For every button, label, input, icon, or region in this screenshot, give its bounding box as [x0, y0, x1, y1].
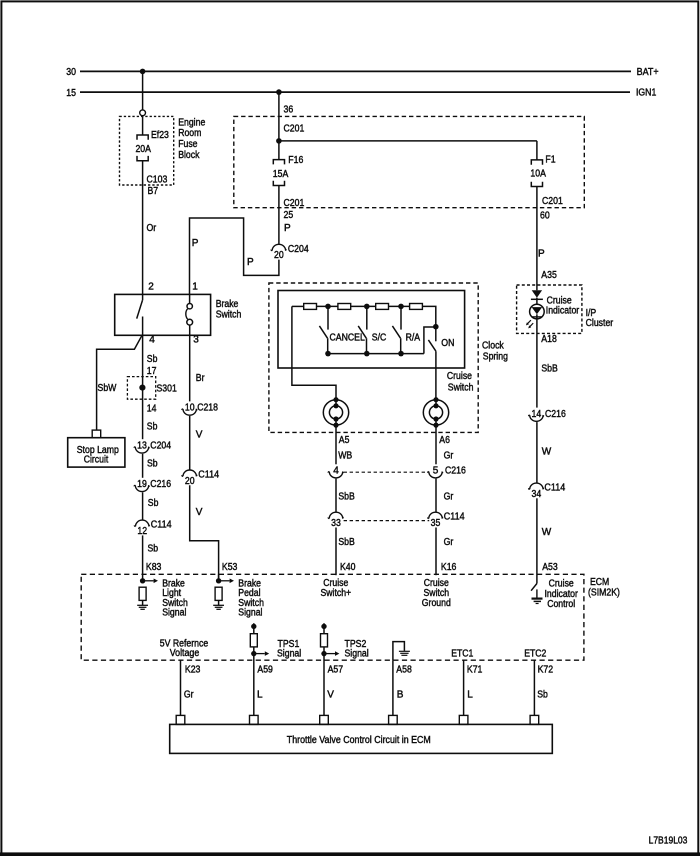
svg-text:C114: C114	[198, 470, 219, 481]
svg-text:SbW: SbW	[98, 383, 117, 394]
svg-text:C204: C204	[288, 244, 309, 255]
svg-text:Signal: Signal	[345, 649, 369, 660]
svg-text:L7B19L03: L7B19L03	[649, 835, 688, 846]
svg-text:Fuse: Fuse	[178, 139, 198, 150]
svg-text:20: 20	[185, 476, 195, 487]
svg-text:20: 20	[274, 250, 284, 261]
svg-text:P: P	[247, 257, 254, 268]
svg-text:Brake: Brake	[216, 299, 239, 310]
svg-text:A59: A59	[257, 665, 273, 676]
svg-text:17: 17	[147, 366, 157, 377]
svg-text:Gr: Gr	[444, 450, 454, 461]
svg-text:A58: A58	[396, 665, 412, 676]
svg-text:Sb: Sb	[537, 690, 548, 701]
svg-text:4: 4	[149, 334, 155, 345]
svg-text:Switch: Switch	[216, 310, 242, 321]
svg-text:K83: K83	[146, 562, 162, 573]
svg-text:P: P	[192, 238, 199, 249]
svg-text:V: V	[196, 507, 203, 518]
svg-text:ECM: ECM	[590, 577, 609, 588]
svg-text:C216: C216	[545, 409, 566, 420]
svg-text:15: 15	[66, 88, 76, 99]
svg-text:14: 14	[147, 403, 157, 414]
svg-text:Indicator: Indicator	[546, 305, 580, 316]
svg-text:F1: F1	[545, 154, 556, 165]
svg-text:CANCEL: CANCEL	[330, 332, 366, 343]
svg-text:Signal: Signal	[277, 649, 301, 660]
svg-text:V: V	[327, 690, 334, 701]
svg-text:K72: K72	[538, 665, 554, 676]
svg-text:A18: A18	[541, 334, 557, 345]
svg-text:SbB: SbB	[338, 537, 355, 548]
svg-text:Spring: Spring	[483, 352, 508, 363]
svg-text:1: 1	[192, 282, 198, 293]
svg-text:19: 19	[137, 479, 147, 490]
svg-text:K23: K23	[185, 665, 201, 676]
svg-text:Ground: Ground	[422, 598, 451, 609]
svg-text:Sb: Sb	[148, 544, 159, 555]
svg-text:C114: C114	[444, 512, 465, 523]
svg-text:10: 10	[185, 403, 195, 414]
svg-text:Sb: Sb	[148, 498, 159, 509]
svg-text:IGN1: IGN1	[636, 88, 657, 99]
svg-text:20A: 20A	[135, 144, 151, 155]
svg-text:Sb: Sb	[147, 459, 158, 470]
svg-text:C114: C114	[151, 520, 172, 531]
svg-text:ON: ON	[441, 338, 454, 349]
svg-text:Sb: Sb	[147, 421, 158, 432]
svg-text:C216: C216	[445, 465, 466, 476]
svg-text:A57: A57	[328, 665, 344, 676]
svg-text:SbB: SbB	[338, 492, 355, 503]
svg-text:BAT+: BAT+	[637, 67, 659, 78]
svg-text:Block: Block	[178, 150, 200, 161]
svg-text:Switch+: Switch+	[320, 588, 351, 599]
svg-text:3: 3	[193, 334, 199, 345]
svg-text:V: V	[196, 430, 203, 441]
svg-text:15A: 15A	[273, 169, 289, 180]
svg-text:W: W	[542, 527, 552, 538]
svg-text:Cruise: Cruise	[447, 371, 472, 382]
svg-text:Or: Or	[147, 223, 157, 234]
svg-text:5: 5	[433, 465, 439, 476]
svg-text:Room: Room	[178, 128, 201, 139]
svg-text:Engine: Engine	[178, 117, 205, 128]
svg-text:Gr: Gr	[184, 690, 194, 701]
svg-text:13: 13	[137, 441, 147, 452]
svg-text:K71: K71	[467, 665, 483, 676]
svg-text:R/A: R/A	[406, 332, 421, 343]
svg-text:Signal: Signal	[162, 608, 186, 619]
svg-text:C103: C103	[147, 175, 168, 186]
svg-text:A5: A5	[339, 435, 350, 446]
svg-text:C114: C114	[544, 483, 565, 494]
svg-text:W: W	[542, 447, 552, 458]
svg-text:S301: S301	[157, 383, 178, 394]
svg-text:ETC2: ETC2	[524, 649, 547, 660]
svg-text:SbB: SbB	[541, 363, 558, 374]
svg-text:L: L	[467, 690, 473, 701]
svg-text:C201: C201	[284, 124, 305, 135]
svg-text:C204: C204	[150, 441, 171, 452]
svg-text:25: 25	[284, 210, 294, 221]
svg-text:33: 33	[331, 518, 341, 529]
svg-text:Switch: Switch	[448, 382, 474, 393]
svg-text:A6: A6	[439, 435, 450, 446]
svg-text:Br: Br	[196, 373, 205, 384]
svg-text:C201: C201	[542, 196, 563, 207]
svg-text:14: 14	[532, 409, 542, 420]
svg-text:C216: C216	[150, 479, 171, 490]
svg-text:34: 34	[532, 489, 542, 500]
svg-text:Cluster: Cluster	[586, 318, 614, 329]
svg-text:35: 35	[431, 518, 441, 529]
svg-text:F16: F16	[288, 155, 303, 166]
svg-text:WB: WB	[338, 450, 352, 461]
svg-text:ETC1: ETC1	[451, 649, 474, 660]
svg-text:30: 30	[66, 67, 76, 78]
svg-text:Voltage: Voltage	[170, 648, 200, 659]
svg-text:P: P	[538, 248, 545, 259]
svg-text:Circuit: Circuit	[84, 454, 109, 465]
svg-text:A53: A53	[542, 562, 558, 573]
svg-text:K40: K40	[340, 562, 356, 573]
svg-text:K16: K16	[441, 562, 457, 573]
svg-text:S/C: S/C	[372, 332, 387, 343]
svg-text:Signal: Signal	[238, 608, 262, 619]
svg-text:B7: B7	[148, 186, 159, 197]
svg-text:K53: K53	[222, 562, 238, 573]
svg-text:C218: C218	[197, 403, 218, 414]
svg-text:10A: 10A	[530, 168, 546, 179]
svg-text:Clock: Clock	[482, 340, 505, 351]
svg-text:B: B	[397, 690, 404, 701]
svg-text:C201: C201	[284, 198, 305, 209]
svg-text:12: 12	[137, 526, 147, 537]
svg-text:Ef23: Ef23	[151, 130, 169, 141]
svg-text:Gr: Gr	[444, 537, 454, 548]
svg-text:4: 4	[333, 465, 339, 476]
svg-text:2: 2	[148, 282, 154, 293]
svg-text:(SIM2K): (SIM2K)	[588, 588, 620, 599]
svg-text:36: 36	[284, 104, 294, 115]
svg-text:L: L	[257, 690, 263, 701]
svg-text:P: P	[284, 223, 291, 234]
svg-text:Control: Control	[547, 599, 575, 610]
svg-text:Gr: Gr	[444, 492, 454, 503]
svg-text:60: 60	[540, 210, 550, 221]
svg-text:Throttle Valve Control Circuit: Throttle Valve Control Circuit in ECM	[287, 735, 431, 746]
svg-text:A35: A35	[541, 270, 557, 281]
svg-text:Sb: Sb	[147, 354, 158, 365]
